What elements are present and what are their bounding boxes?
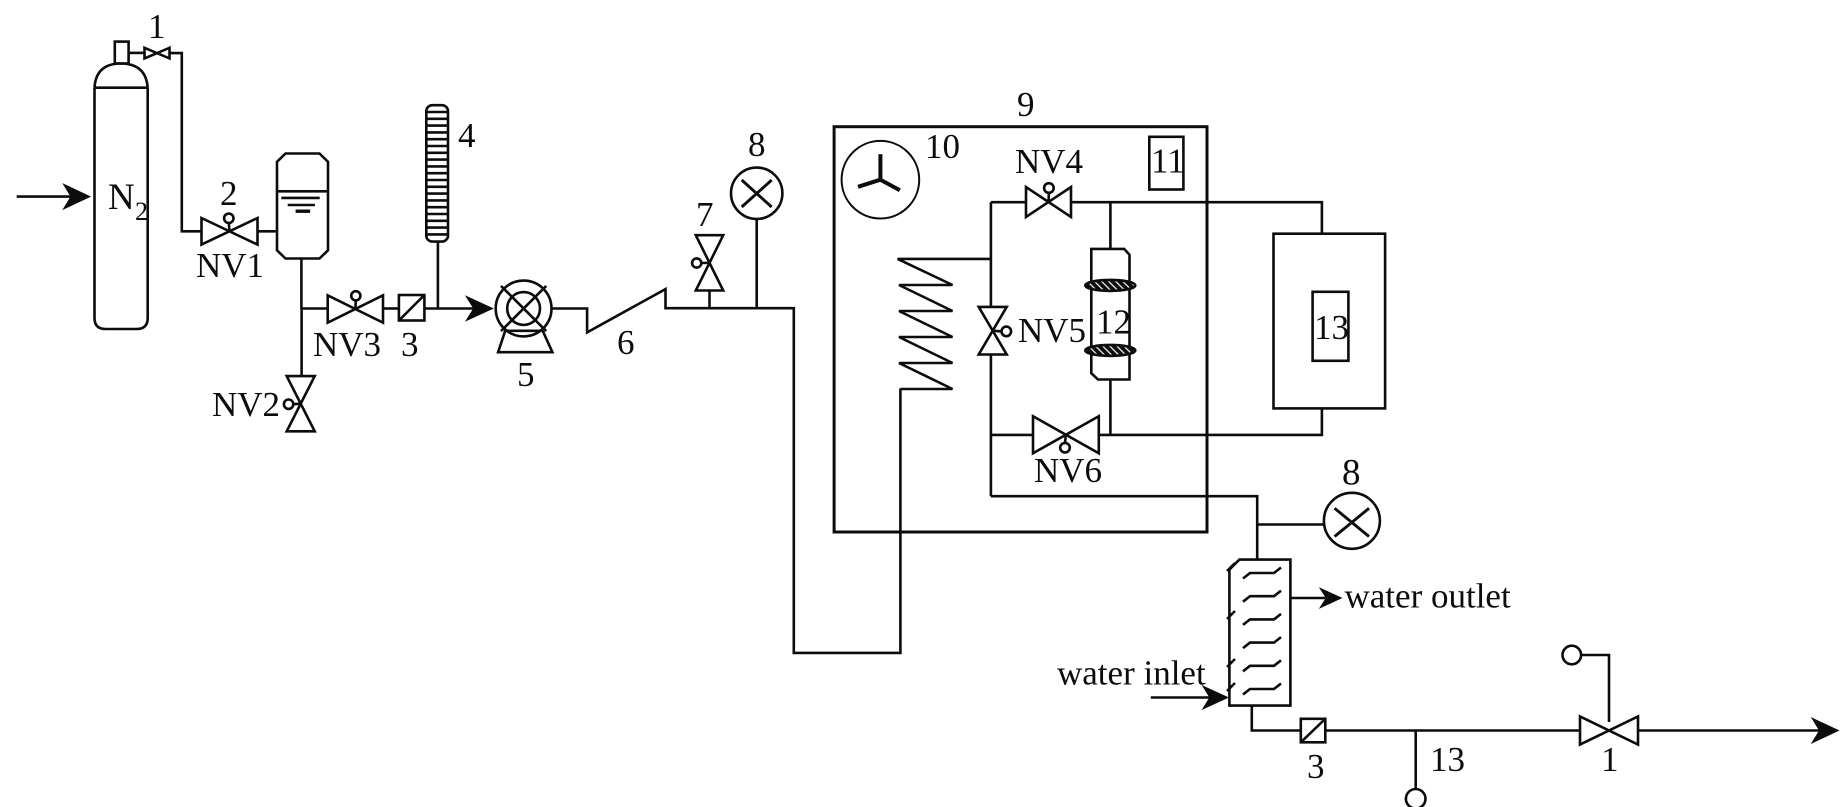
- svg-text:water inlet: water inlet: [1057, 654, 1206, 693]
- svg-text:3: 3: [401, 325, 419, 364]
- svg-text:7: 7: [696, 195, 714, 234]
- svg-text:5: 5: [517, 355, 535, 394]
- svg-text:NV4: NV4: [1015, 142, 1083, 181]
- svg-text:NV1: NV1: [196, 246, 264, 285]
- svg-text:NV5: NV5: [1018, 311, 1086, 350]
- svg-text:8: 8: [748, 125, 766, 164]
- svg-text:1: 1: [148, 7, 166, 46]
- svg-text:NV3: NV3: [313, 325, 381, 364]
- svg-text:10: 10: [925, 127, 960, 166]
- svg-text:1: 1: [1601, 740, 1619, 779]
- svg-text:3: 3: [1307, 747, 1325, 786]
- svg-text:NV2: NV2: [212, 385, 280, 424]
- svg-text:9: 9: [1017, 85, 1035, 124]
- svg-text:12: 12: [1096, 303, 1131, 342]
- svg-text:2: 2: [135, 197, 148, 226]
- svg-text:2: 2: [220, 174, 238, 213]
- svg-text:13: 13: [1430, 740, 1465, 779]
- svg-text:4: 4: [458, 116, 476, 155]
- svg-text:6: 6: [617, 323, 635, 362]
- svg-text:8: 8: [1342, 453, 1361, 494]
- svg-text:water outlet: water outlet: [1345, 577, 1511, 616]
- svg-text:NV6: NV6: [1034, 451, 1102, 490]
- svg-text:13: 13: [1314, 308, 1349, 347]
- svg-text:11: 11: [1151, 142, 1185, 181]
- svg-text:N: N: [108, 177, 135, 218]
